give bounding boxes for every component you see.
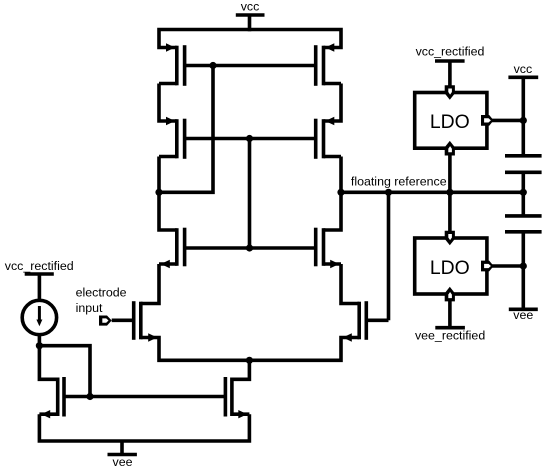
svg-text:vcc: vcc	[241, 0, 260, 14]
svg-text:vcc_rectified: vcc_rectified	[416, 44, 485, 58]
arrow PMOS M1 source	[166, 43, 175, 51]
NMOS M5 cascode-left: gate bar	[183, 228, 187, 267]
NMOS M10 mirror-right: source bend	[232, 412, 250, 416]
junction node M9 gate	[86, 393, 93, 400]
port pin electrode input	[99, 316, 112, 326]
wire vcc to capacitor C1	[521, 120, 525, 157]
gate line row3 (M5-M6 gates)	[185, 246, 316, 250]
LDO U1 supply stem from vcc_rectified bar	[435, 61, 465, 88]
junction node M1 gate	[209, 62, 216, 69]
gate line M9-M10	[64, 395, 225, 399]
svg-text:vee_rectified: vee_rectified	[415, 329, 485, 343]
PMOS M3 cascode-left: gate bar	[183, 119, 187, 159]
gate line row2 (M3-M4 gates)	[185, 137, 316, 141]
wire M5 source to M7 drain	[141, 264, 159, 304]
arrow NMOS M7 source	[148, 333, 157, 341]
vee power symbol (bottom)	[108, 441, 137, 455]
wire floating reference to capacitor C2	[521, 192, 525, 216]
junction node LDO U1 output	[520, 117, 527, 124]
arrow PMOS M2 source	[325, 43, 334, 51]
arrow PMOS M3 source	[166, 117, 175, 125]
junction node current source output	[36, 342, 43, 349]
cascode bias vertical wire	[248, 139, 252, 249]
arrow PMOS M4 source	[325, 117, 334, 125]
arrow NMOS M6 source	[330, 260, 339, 268]
junction node LDO U2 output	[520, 262, 527, 269]
capacitor C2 plates	[505, 216, 542, 232]
current source I1 circle	[22, 300, 56, 334]
bottom rail (vee)	[39, 414, 249, 441]
wire C1 to floating reference	[521, 172, 525, 192]
svg-text:floating reference: floating reference	[351, 175, 447, 189]
wire M3 drain to M5 drain (left branch)	[159, 157, 177, 231]
NMOS M10 mirror-right: channel	[230, 378, 234, 417]
NMOS M9 mirror-left: gate bar	[62, 377, 66, 417]
NMOS M6 cascode-right: gate bar	[314, 228, 318, 267]
NMOS M8 input-right: channel	[357, 302, 361, 340]
NMOS M6 cascode-right: channel	[322, 228, 326, 266]
junction node left branch output	[155, 189, 162, 196]
svg-text:LDO: LDO	[430, 111, 470, 133]
svg-text:vcc_rectified: vcc_rectified	[5, 259, 74, 273]
PMOS M1 top-left: gate bar	[183, 45, 187, 86]
arrow NMOS M5 source	[161, 260, 170, 268]
junction node floating reference at M8 gate drop	[385, 189, 392, 196]
NMOS M8 input-right: gate wire	[366, 318, 388, 322]
junction node M5 gate	[246, 244, 253, 251]
diode-connect wire from row1 gate node down to left branch	[159, 66, 213, 193]
svg-text:LDO: LDO	[430, 257, 470, 279]
gate line row1 (M1-M2 gates)	[185, 64, 316, 68]
svg-text:electrode: electrode	[76, 286, 127, 300]
PMOS M4 cascode-right: channel	[322, 119, 326, 158]
wire M6 source to M8 drain	[341, 264, 359, 304]
svg-text:vee: vee	[513, 308, 533, 322]
current source I1 arrow	[36, 306, 42, 326]
vcc_rectified power symbol (left)	[25, 274, 54, 300]
wire M4 drain to M6 drain (right branch)	[324, 157, 342, 231]
port pin LDO U2 bottom (ground)	[445, 287, 455, 302]
PMOS M1 top-left: channel	[175, 46, 179, 86]
arrow NMOS M10 source	[238, 410, 247, 418]
NMOS M7 input-left: gate bar	[132, 301, 136, 340]
arrow NMOS M8 source	[343, 333, 352, 341]
wire tail node down to M10 drain	[232, 360, 250, 379]
port pin LDO U2 top (input)	[445, 231, 455, 246]
PMOS M2 top-right: gate bar	[314, 45, 318, 86]
PMOS M2 top-right: channel	[322, 46, 326, 86]
LDO U1 ground wire to floating reference	[448, 152, 452, 192]
LDO U2 box	[415, 238, 487, 294]
vcc power symbol (top)	[236, 15, 265, 31]
PMOS M3 cascode-left: channel	[175, 119, 179, 158]
tail wire (M7,M8 sources)	[141, 338, 359, 361]
junction node tail	[246, 357, 253, 364]
NMOS M6 cascode-right: source bend	[324, 262, 342, 266]
LDO U1 box	[415, 93, 487, 149]
NMOS M7 input-left: channel	[139, 302, 143, 340]
port pin LDO U1 top (input)	[445, 85, 455, 100]
PMOS M1 top-left: drain bend	[159, 82, 177, 86]
NMOS M5 cascode-left: channel	[175, 228, 179, 266]
arrow NMOS M9 source	[41, 410, 50, 418]
wire I1 to mirror node	[38, 335, 42, 346]
capacitor C1 plates	[505, 156, 542, 173]
wire M2 drain to M4 source	[324, 84, 342, 122]
LDO U2 output wire	[490, 264, 523, 268]
top rail with PMOS source stubs	[159, 30, 341, 48]
vee power symbol (right)	[509, 307, 538, 311]
svg-text:vee: vee	[113, 455, 133, 469]
NMOS M5 cascode-left: source bend	[159, 262, 177, 266]
NMOS M9 mirror-left: source bend	[39, 412, 57, 416]
junction node M3 gate	[246, 135, 253, 142]
floating reference net	[341, 191, 523, 195]
port pin LDO U2 output	[481, 261, 494, 272]
PMOS M2 top-right: drain bend	[324, 82, 342, 86]
LDO U2 supply wire from floating reference	[448, 192, 452, 234]
wire floating reference to M8 gate	[387, 192, 391, 320]
LDO U1 output wire	[490, 119, 523, 123]
svg-text:input: input	[76, 301, 103, 315]
svg-text:vcc: vcc	[514, 62, 533, 76]
port pin LDO U1 output	[481, 115, 494, 126]
junction node floating reference at right branch	[337, 189, 344, 196]
NMOS M7 input-left: gate wire	[112, 318, 134, 322]
wire mirror node down to M9 drain	[39, 346, 57, 380]
PMOS M4 cascode-right: drain bend	[324, 155, 342, 159]
wire M1 drain to M3 source	[159, 84, 177, 122]
junction node floating reference at capacitors	[520, 189, 527, 196]
wire mirror node to M9 gate	[39, 346, 90, 397]
wire LDO U2 output down to vee symbol	[521, 266, 525, 309]
junction node floating reference at LDO U2	[446, 189, 453, 196]
LDO U2 wire to vee_rectified bar	[435, 298, 465, 328]
vcc power symbol (right)	[508, 77, 538, 120]
NMOS M10 mirror-right: gate bar	[224, 377, 228, 417]
PMOS M4 cascode-right: gate bar	[314, 119, 318, 159]
NMOS M9 mirror-left: channel	[56, 378, 60, 417]
port pin LDO U1 bottom (ground)	[445, 141, 455, 156]
NMOS M8 input-right: gate bar	[364, 301, 368, 340]
wire C2 to LDO U2 output	[521, 232, 525, 266]
PMOS M3 cascode-left: drain bend	[159, 155, 177, 159]
